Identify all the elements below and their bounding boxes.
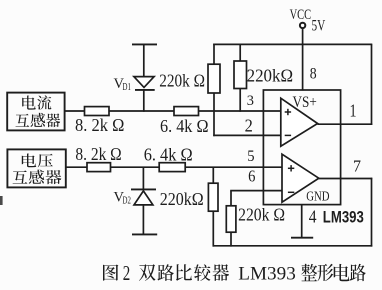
resistor R8 220k body xyxy=(226,206,236,232)
svg-text:2: 2 xyxy=(123,261,131,285)
diode VD2 (triangle) xyxy=(134,191,153,205)
op-amp U1B plus input mark xyxy=(288,167,294,169)
op-amp U1A (comparator 1) xyxy=(281,98,318,146)
op-amp U1A plus input mark xyxy=(285,111,291,113)
resistor R5 220k body (to pins 3/2 node) xyxy=(208,64,220,93)
wire R6 bottom to node A xyxy=(239,89,241,112)
wire node B down to R7 xyxy=(212,167,214,183)
label T1 text 互感器 xyxy=(15,114,29,127)
wire pin 2 line xyxy=(213,134,281,136)
op-amp U1B (comparator 2) xyxy=(282,154,319,202)
svg-text:6. 4k Ω: 6. 4k Ω xyxy=(144,145,193,165)
svg-text:6: 6 xyxy=(248,167,255,186)
op-amp U1A minus input mark xyxy=(285,134,291,136)
scan artifact left edge xyxy=(0,196,3,205)
svg-text:2: 2 xyxy=(245,116,253,136)
svg-text:3: 3 xyxy=(247,93,254,109)
wire U1B output pin 7 xyxy=(319,178,373,180)
wire VCC rail down to output 1 xyxy=(371,44,373,125)
resistor R6 220k body (rail to node A) xyxy=(234,61,247,89)
svg-text:220k Ω: 220k Ω xyxy=(159,71,205,91)
svg-text:GND: GND xyxy=(306,189,329,204)
resistor R7 220k body xyxy=(208,183,218,211)
op-amp U1B minus input mark xyxy=(288,191,294,193)
ground bar pin 4 xyxy=(291,237,313,239)
wire VD1 to node A xyxy=(143,90,145,112)
diode VD1 cathode bar xyxy=(135,89,155,91)
wire U1A output to right rail xyxy=(318,123,373,125)
bottom wire xyxy=(213,245,373,247)
wire pin 4 to ground xyxy=(301,205,303,238)
wire R3 to R4 (node VD2) xyxy=(111,166,160,168)
wire R1 to R2 (node VD1) xyxy=(109,110,175,112)
label T1 text 电流 xyxy=(22,96,36,110)
svg-text:LM393: LM393 xyxy=(323,209,364,227)
svg-text:8: 8 xyxy=(310,65,317,82)
svg-text:5: 5 xyxy=(247,148,255,165)
wire R2 to pin 3 (node A) xyxy=(199,110,281,112)
resistor R3 8.2k (box) xyxy=(87,163,111,172)
wire R6 top to VCC rail xyxy=(239,44,241,61)
svg-text:220kΩ: 220kΩ xyxy=(160,189,204,209)
wire pin6 corner down to R8 xyxy=(230,191,232,206)
label T2 text 电压 xyxy=(22,154,36,168)
svg-text:8. 2k Ω: 8. 2k Ω xyxy=(75,115,124,135)
transformer box T1 (current transformer) xyxy=(7,93,64,131)
diode VD1 (triangle) xyxy=(134,77,154,88)
wire bar to VD1 xyxy=(143,44,145,76)
wire output 7 down to bottom wire xyxy=(371,178,373,247)
wire R7 to bottom wire xyxy=(212,211,214,246)
svg-text:220kΩ: 220kΩ xyxy=(247,66,294,86)
wire T2 to R3 xyxy=(66,166,88,168)
ground bar below VD2 xyxy=(132,233,157,235)
wire node B down to VD2 xyxy=(142,167,144,189)
wire VCC to pin 8 xyxy=(302,29,304,91)
wire pin 6 line xyxy=(230,190,282,192)
wire VD2 to ground bar xyxy=(142,205,144,234)
svg-text:LM393: LM393 xyxy=(238,264,295,285)
supply bar above VD1 xyxy=(132,43,157,45)
VCC rail xyxy=(213,43,372,45)
resistor R4 6.4k (box) xyxy=(159,163,185,172)
wire R5 top to VCC rail xyxy=(213,44,215,65)
svg-text:7: 7 xyxy=(353,157,361,176)
wire R8 to bottom wire xyxy=(230,232,232,246)
svg-text:4: 4 xyxy=(309,207,317,227)
wire T1 to R1 xyxy=(65,110,85,112)
resistor R1 8.2k (box) xyxy=(85,107,110,116)
svg-text:VS+: VS+ xyxy=(293,94,317,111)
transformer box T2 (voltage transformer) xyxy=(7,149,65,187)
wire R5 bottom through node A to pin2 corner xyxy=(213,93,215,136)
svg-text:D1: D1 xyxy=(123,82,131,93)
diode VD2 cathode bar xyxy=(131,188,156,190)
svg-text:1: 1 xyxy=(350,101,357,121)
IC U1 LM393 package box xyxy=(263,90,340,205)
wire R4 to pin 5 (node B) xyxy=(185,166,282,168)
svg-text:8. 2k Ω: 8. 2k Ω xyxy=(75,144,121,164)
resistor R2 6.4k (box) xyxy=(174,107,199,116)
label T2 text 互感器 xyxy=(13,170,28,183)
svg-text:D2: D2 xyxy=(123,195,131,206)
svg-text:5V: 5V xyxy=(312,18,326,35)
VCC terminal circle xyxy=(300,23,305,28)
svg-text:6. 4k Ω: 6. 4k Ω xyxy=(160,116,209,136)
svg-text:VCC: VCC xyxy=(290,7,312,23)
caption 图 2 双路比较器 LM393 整形电路 xyxy=(103,264,118,280)
svg-text:220k Ω: 220k Ω xyxy=(238,205,285,225)
